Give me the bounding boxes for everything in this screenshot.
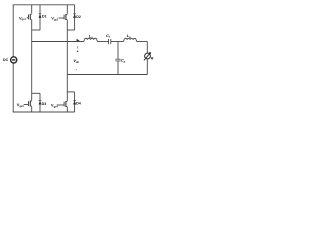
wire Q3 source stub <box>31 107 33 113</box>
capacitor Cp <box>115 59 120 61</box>
wire shunt branch lower <box>117 61 119 74</box>
svg-text:D1: D1 <box>42 15 47 19</box>
wire Q3 drain stub <box>31 93 33 100</box>
svg-text:Cs: Cs <box>106 33 111 39</box>
svg-text:DC: DC <box>3 58 9 62</box>
svg-text:Ls: Ls <box>89 33 93 39</box>
capacitor Cs <box>109 39 111 44</box>
svg-text:D4: D4 <box>76 101 81 105</box>
transistor Q4 <box>57 101 68 107</box>
wire leg1 lower box <box>32 92 40 94</box>
wire leg1 box <box>32 29 40 31</box>
svg-text:Vgs2: Vgs2 <box>51 16 58 22</box>
wire node C shunt branch upper <box>117 42 119 60</box>
wire return rail <box>67 74 147 76</box>
wire Q2 source to box <box>66 20 68 30</box>
wire node B rail (Q2 source down to Q4 drain) <box>66 30 68 92</box>
wire Q4 drain stub <box>66 92 68 101</box>
svg-text:+: + <box>77 50 79 54</box>
diode D4 <box>73 92 76 112</box>
wire L1 to Cs <box>97 41 108 43</box>
wire Cs to node C <box>111 41 124 43</box>
inductor L2 <box>124 38 137 41</box>
wire load top <box>146 42 148 54</box>
wire L2 to load corner <box>137 41 148 43</box>
dc source polarity mark <box>12 59 15 61</box>
wire left rail lower <box>12 63 14 112</box>
diode D2 <box>73 5 76 30</box>
svg-text:Vgs4: Vgs4 <box>51 103 58 109</box>
wire leg1 mid vertical (node A down to Q3) <box>31 30 33 93</box>
wire bottom rail <box>13 111 75 113</box>
transistor Q1 <box>27 14 32 20</box>
svg-text:Vgs1: Vgs1 <box>19 15 26 21</box>
transistor Q2 <box>58 14 67 20</box>
wire load bottom <box>146 59 148 75</box>
transistor Q3 <box>24 101 32 107</box>
dc source V1 <box>11 57 17 63</box>
svg-text:Cp: Cp <box>121 58 126 64</box>
load RL lamp <box>144 52 151 60</box>
wire leg2 box <box>67 29 74 31</box>
wire left rail upper <box>12 5 14 57</box>
svg-text:Lp: Lp <box>127 33 131 39</box>
svg-text:Vgs3: Vgs3 <box>17 102 24 108</box>
wire Q4 source stub <box>66 107 68 112</box>
svg-text:D3: D3 <box>42 102 47 106</box>
svg-text:-: - <box>76 67 78 71</box>
wire Q2 drain stub <box>66 5 68 14</box>
diode D1 <box>39 5 42 30</box>
wire leg2 lower box <box>67 91 74 93</box>
svg-text:Vab: Vab <box>73 58 79 64</box>
wire Q1 drain stub <box>31 5 33 14</box>
wire top rail <box>13 4 75 6</box>
current arrow i <box>77 39 80 42</box>
svg-text:D2: D2 <box>76 15 81 19</box>
wire node A output to filter <box>32 41 84 43</box>
wire Q1 source to box <box>31 20 33 30</box>
svg-text:R: R <box>151 56 154 60</box>
diode D3 <box>39 93 42 112</box>
inductor L1 <box>84 38 98 41</box>
